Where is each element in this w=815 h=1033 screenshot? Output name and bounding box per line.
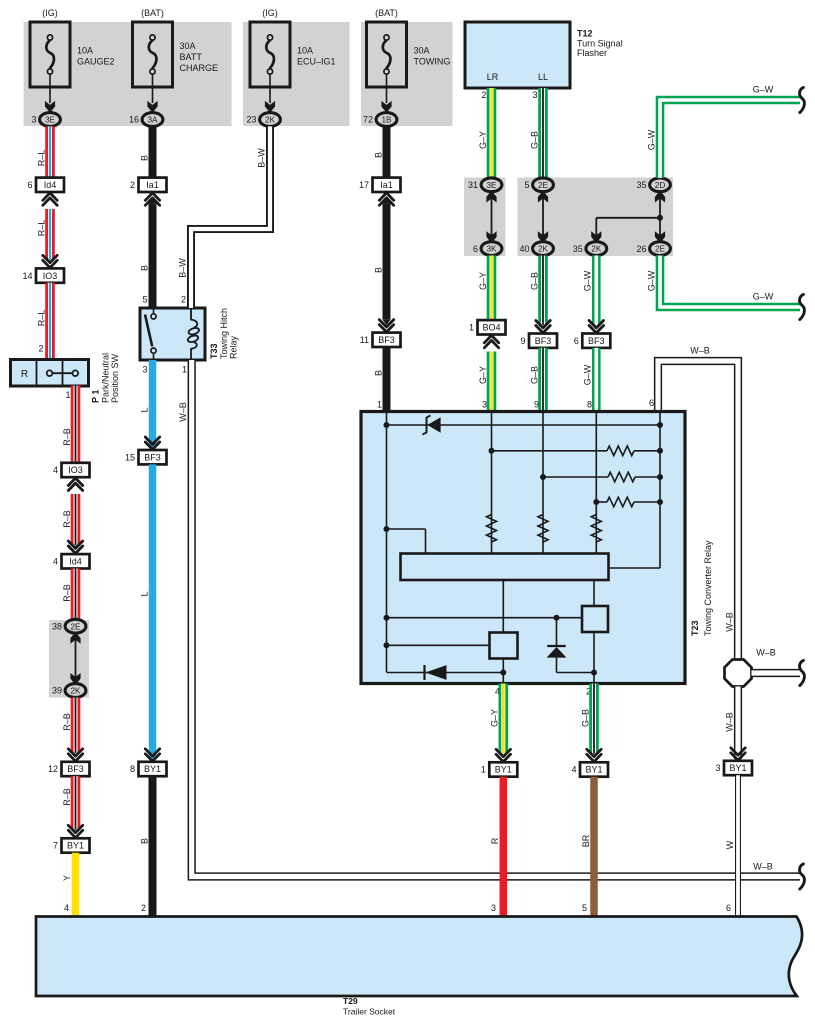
svg-text:15: 15 bbox=[125, 452, 135, 462]
svg-text:72: 72 bbox=[363, 115, 373, 125]
wire R-L 3E to Id4 bbox=[45, 126, 55, 178]
svg-text:R–B: R–B bbox=[62, 510, 72, 528]
towing converter relay T23 bbox=[361, 412, 685, 684]
svg-text:R–L: R–L bbox=[36, 310, 46, 327]
svg-text:IO3: IO3 bbox=[43, 271, 58, 281]
wire Y BY1 to trailer socket pin 4 bbox=[72, 853, 80, 916]
svg-text:Turn Signal: Turn Signal bbox=[577, 39, 623, 49]
connector 4 IO3 bbox=[62, 463, 90, 477]
wire W-B octagon to BY1 bbox=[734, 687, 742, 760]
svg-text:Park/Neutral: Park/Neutral bbox=[101, 353, 111, 403]
wire BR BY1 to trailer socket pin 5 bbox=[590, 777, 598, 916]
arrow link 2D to 2K/2E bbox=[659, 193, 661, 241]
svg-text:3E: 3E bbox=[486, 181, 497, 190]
svg-text:35: 35 bbox=[573, 244, 583, 254]
svg-text:W–B: W–B bbox=[690, 346, 710, 356]
svg-text:BY1: BY1 bbox=[144, 764, 161, 774]
svg-text:1: 1 bbox=[377, 400, 382, 410]
T23 vertical pin8 bbox=[595, 413, 597, 554]
svg-text:Towing Converter Relay: Towing Converter Relay bbox=[703, 540, 713, 636]
svg-text:1: 1 bbox=[481, 765, 486, 775]
svg-text:T33: T33 bbox=[209, 343, 219, 359]
svg-text:30A: 30A bbox=[180, 41, 196, 51]
wire W-B octagon to off-page right bbox=[752, 669, 801, 677]
svg-text:(BAT): (BAT) bbox=[375, 8, 398, 18]
connector 39 2K bbox=[65, 684, 86, 698]
arrows up under Ia1 bbox=[145, 193, 159, 200]
T23 internal rail pin1 bbox=[386, 413, 388, 672]
zener diode bbox=[426, 417, 428, 433]
shade box connectors 3E/3K bbox=[464, 178, 506, 257]
wire B-W 2K to T33 pin 2 bbox=[191, 126, 270, 308]
svg-text:8: 8 bbox=[130, 764, 135, 774]
svg-text:2D: 2D bbox=[655, 181, 666, 190]
svg-text:W–B: W–B bbox=[724, 712, 734, 732]
turn signal flasher T12 bbox=[465, 22, 570, 88]
svg-text:3: 3 bbox=[31, 115, 36, 125]
off-page squiggle W-B right bbox=[800, 660, 805, 685]
svg-text:3A: 3A bbox=[147, 116, 158, 125]
resistor row2 bbox=[543, 476, 608, 478]
svg-text:5: 5 bbox=[524, 180, 529, 190]
svg-text:P 1: P 1 bbox=[91, 390, 101, 403]
arrows down above BY1 bbox=[731, 753, 745, 760]
wire B BF3 to T23 pin 1 bbox=[383, 347, 391, 412]
svg-text:9: 9 bbox=[520, 336, 525, 346]
svg-text:BY1: BY1 bbox=[729, 763, 746, 773]
branch pin1 to control block bbox=[384, 526, 390, 532]
svg-text:2E: 2E bbox=[70, 622, 81, 631]
svg-text:6: 6 bbox=[574, 336, 579, 346]
svg-text:B–W: B–W bbox=[177, 258, 187, 278]
svg-text:B–W: B–W bbox=[256, 148, 266, 168]
svg-text:2K: 2K bbox=[591, 245, 602, 254]
connector 38 2E bbox=[65, 619, 86, 633]
wire R-L Id4 to IO3 bbox=[45, 209, 55, 260]
svg-text:IO3: IO3 bbox=[68, 465, 83, 475]
wire W BY1 to trailer socket pin 6 bbox=[735, 775, 741, 916]
output transistor Q2 bbox=[593, 580, 595, 606]
towing hitch relay T33 bbox=[140, 308, 205, 360]
vertical resistor pin9 bbox=[538, 515, 548, 543]
connector 15 BF3 bbox=[139, 450, 167, 464]
connector 5 2E bbox=[533, 178, 554, 192]
svg-text:3E: 3E bbox=[45, 116, 56, 125]
shade box fuses GAUGE2/BATT bbox=[24, 22, 232, 126]
arrows up under Ia1 bbox=[379, 193, 393, 200]
wire G-Y LR to 3E bbox=[487, 88, 497, 178]
svg-text:30A: 30A bbox=[414, 46, 430, 56]
wire B Ia1 to BF3 bbox=[383, 203, 391, 320]
wire B 1B to Ia1 bbox=[383, 126, 391, 178]
wire W-B T33 pin1 to ground splice run bbox=[192, 360, 800, 877]
connector 1 BY1 bbox=[489, 762, 517, 776]
svg-text:14: 14 bbox=[22, 271, 32, 281]
vertical resistor pin3 bbox=[487, 515, 497, 543]
svg-text:G–Y: G–Y bbox=[478, 272, 488, 290]
svg-text:Y: Y bbox=[62, 875, 72, 881]
svg-text:W–B: W–B bbox=[756, 648, 776, 658]
svg-text:G–W: G–W bbox=[583, 364, 593, 385]
svg-text:2: 2 bbox=[481, 90, 486, 100]
svg-text:G–W: G–W bbox=[753, 292, 774, 302]
svg-text:G–B: G–B bbox=[529, 272, 539, 290]
T23 h-line lower bbox=[387, 644, 490, 646]
connector 16 3A bbox=[142, 113, 163, 127]
svg-text:6: 6 bbox=[726, 903, 731, 913]
svg-text:4: 4 bbox=[53, 557, 58, 567]
svg-text:10A: 10A bbox=[297, 46, 313, 56]
connector 6 3K bbox=[481, 242, 502, 256]
svg-text:(IG): (IG) bbox=[262, 8, 278, 18]
T23 vertical pin6 bbox=[659, 413, 661, 568]
wire B 3A to Ia1 bbox=[149, 126, 157, 178]
fuse 30A TOWING (BAT) bbox=[367, 22, 407, 87]
svg-text:ECU–IG1: ECU–IG1 bbox=[297, 57, 336, 67]
wire L T33 pin3 to BF3 bbox=[149, 360, 157, 446]
svg-text:Id4: Id4 bbox=[44, 180, 57, 190]
svg-text:7: 7 bbox=[53, 841, 58, 851]
connector 12 BF3 bbox=[62, 762, 90, 776]
svg-text:23: 23 bbox=[246, 115, 256, 125]
svg-text:2K: 2K bbox=[538, 245, 549, 254]
T23 vertical pin3 bbox=[491, 413, 493, 554]
svg-text:3: 3 bbox=[532, 90, 537, 100]
svg-text:11: 11 bbox=[360, 335, 369, 345]
svg-text:B: B bbox=[373, 152, 383, 158]
wire R-B IO3 to Id4 bbox=[71, 494, 81, 545]
svg-text:16: 16 bbox=[129, 115, 139, 125]
connector 8 BY1 bbox=[139, 762, 167, 776]
svg-text:10A: 10A bbox=[77, 46, 93, 56]
wire G-B LL to 2E bbox=[538, 88, 548, 178]
connector 6 BF3 bbox=[582, 334, 610, 348]
svg-text:BY1: BY1 bbox=[585, 765, 602, 775]
svg-text:3K: 3K bbox=[486, 245, 497, 254]
svg-text:(BAT): (BAT) bbox=[141, 8, 164, 18]
svg-text:38: 38 bbox=[52, 621, 62, 631]
svg-text:R: R bbox=[21, 369, 28, 380]
park/neutral position switch P1 bbox=[11, 360, 89, 387]
svg-text:B: B bbox=[373, 370, 383, 376]
svg-text:BO4: BO4 bbox=[482, 323, 500, 333]
svg-text:TOWING: TOWING bbox=[414, 57, 451, 67]
svg-text:R: R bbox=[490, 837, 500, 844]
arrows down above BY1 bbox=[68, 830, 82, 837]
shade box connectors 2E/2K left bbox=[49, 620, 89, 698]
shade box connectors 2E/2K/2D bbox=[518, 178, 674, 257]
wire G-B T23 pin2 to BY1 bbox=[589, 684, 599, 754]
svg-text:G–W: G–W bbox=[753, 85, 774, 95]
resistor row1 bbox=[492, 450, 608, 452]
wire G-B 2K to BF3 bbox=[538, 256, 548, 325]
svg-text:2: 2 bbox=[141, 903, 146, 913]
arrow link 2E to 2K bbox=[75, 634, 77, 683]
svg-text:R–L: R–L bbox=[36, 220, 46, 237]
svg-text:12: 12 bbox=[48, 764, 58, 774]
T33 coil bbox=[190, 308, 192, 320]
wire R-L IO3 to P1 bbox=[45, 283, 55, 360]
svg-text:LL: LL bbox=[538, 72, 548, 82]
off-page squiggle G-W top bbox=[800, 87, 805, 112]
fuse 10A ECU-IG1 (IG) bbox=[250, 22, 290, 87]
wire G-W BF3 to T23 pin 8 bbox=[592, 348, 601, 412]
svg-text:4: 4 bbox=[53, 465, 58, 475]
svg-text:G–Y: G–Y bbox=[490, 709, 500, 727]
svg-text:W–B: W–B bbox=[178, 402, 188, 422]
svg-text:2: 2 bbox=[181, 295, 186, 305]
T23 top rail bbox=[387, 424, 661, 426]
arrow link 3E to 3K bbox=[491, 193, 493, 242]
arrows down above Id4 bbox=[68, 546, 82, 553]
svg-text:6: 6 bbox=[649, 398, 654, 408]
svg-text:BF3: BF3 bbox=[378, 335, 395, 345]
svg-text:BF3: BF3 bbox=[144, 452, 161, 462]
connector 40 2K bbox=[533, 242, 554, 256]
arrows down above BY1 bbox=[145, 754, 159, 761]
svg-text:L: L bbox=[139, 591, 149, 596]
svg-text:Ia1: Ia1 bbox=[380, 180, 393, 190]
arrow link 2E to 2K bbox=[542, 193, 544, 242]
svg-text:BY1: BY1 bbox=[495, 765, 512, 775]
arrows up under Id4 bbox=[43, 193, 57, 200]
arrows up under BO4 bbox=[484, 335, 498, 342]
svg-text:T23: T23 bbox=[690, 620, 700, 636]
svg-text:4: 4 bbox=[571, 765, 576, 775]
svg-text:2E: 2E bbox=[538, 181, 549, 190]
svg-text:T12: T12 bbox=[577, 29, 593, 39]
connector 7 BY1 bbox=[62, 838, 90, 852]
output transistor Q1 bbox=[502, 580, 504, 633]
svg-text:GAUGE2: GAUGE2 bbox=[77, 57, 115, 67]
connector 35 2D bbox=[650, 178, 671, 192]
svg-text:3: 3 bbox=[715, 763, 720, 773]
T23 h-line upper bbox=[387, 617, 583, 619]
svg-text:40: 40 bbox=[519, 244, 529, 254]
T23 control block bbox=[401, 554, 609, 581]
svg-text:W: W bbox=[725, 840, 735, 849]
connector 35 2K bbox=[586, 242, 607, 256]
wire G-Y 3K to BO4 bbox=[487, 256, 497, 322]
wire G-W 2D to off-page right top bbox=[660, 100, 800, 178]
off-page squiggle G-W lower bbox=[800, 294, 805, 319]
svg-text:BF3: BF3 bbox=[588, 336, 605, 346]
off-page squiggle W-B bottom bbox=[800, 864, 805, 889]
svg-text:5: 5 bbox=[582, 903, 587, 913]
svg-text:Ia1: Ia1 bbox=[146, 180, 159, 190]
svg-text:39: 39 bbox=[52, 686, 62, 696]
svg-text:B: B bbox=[139, 155, 149, 161]
svg-text:2K: 2K bbox=[70, 687, 81, 696]
connector 3 3E bbox=[40, 113, 61, 127]
connector 9 BF3 bbox=[529, 334, 557, 348]
connector 72 1B bbox=[376, 113, 397, 127]
svg-text:Trailer Socket: Trailer Socket bbox=[343, 1007, 396, 1017]
svg-text:3: 3 bbox=[142, 365, 147, 375]
svg-text:G–B: G–B bbox=[529, 366, 539, 384]
svg-text:R–B: R–B bbox=[62, 428, 72, 446]
arrows down above BY1 bbox=[587, 754, 601, 761]
fuse 30A BATT CHARGE (BAT) bbox=[133, 22, 173, 87]
svg-text:G–Y: G–Y bbox=[478, 131, 488, 149]
arrows down above BF3 bbox=[589, 326, 603, 333]
svg-text:G–W: G–W bbox=[646, 270, 656, 291]
svg-text:6: 6 bbox=[473, 244, 478, 254]
svg-text:Position SW: Position SW bbox=[110, 353, 120, 403]
wire R-B P1 to IO3 bbox=[71, 386, 81, 463]
svg-text:R–B: R–B bbox=[62, 713, 72, 731]
arrows down above BF3 bbox=[145, 442, 159, 449]
connector 3 BY1 bbox=[724, 761, 752, 775]
T33 switch contacts bbox=[153, 308, 155, 314]
svg-text:Id4: Id4 bbox=[69, 557, 82, 567]
svg-text:4: 4 bbox=[64, 903, 69, 913]
svg-text:31: 31 bbox=[468, 180, 478, 190]
svg-text:1: 1 bbox=[182, 365, 187, 375]
svg-text:2K: 2K bbox=[265, 116, 276, 125]
wire G-Y T23 pin4 to BY1 bbox=[498, 684, 508, 754]
svg-text:2: 2 bbox=[130, 180, 135, 190]
svg-text:G–W: G–W bbox=[646, 129, 656, 150]
svg-text:6: 6 bbox=[27, 180, 32, 190]
shade box fuse TOWING bbox=[361, 22, 453, 126]
svg-text:G–W: G–W bbox=[583, 270, 593, 291]
svg-text:1: 1 bbox=[65, 390, 70, 400]
svg-text:BR: BR bbox=[581, 834, 591, 847]
connector 23 2K bbox=[260, 113, 281, 127]
arrows down above BY1 bbox=[496, 754, 510, 761]
svg-text:B: B bbox=[139, 838, 149, 844]
svg-text:R–B: R–B bbox=[62, 788, 72, 806]
svg-text:BY1: BY1 bbox=[67, 841, 84, 851]
wire R-B Id4 to 2E bbox=[71, 569, 81, 620]
svg-text:R–L: R–L bbox=[36, 150, 46, 167]
connector 14 IO3 bbox=[36, 268, 64, 282]
connector 1 BO4 bbox=[478, 320, 506, 334]
arrows down above BF3 bbox=[68, 754, 82, 761]
svg-text:BF3: BF3 bbox=[535, 336, 552, 346]
svg-text:LR: LR bbox=[487, 72, 499, 82]
svg-text:G–B: G–B bbox=[580, 709, 590, 727]
svg-text:G–B: G–B bbox=[529, 131, 539, 149]
wire G-W 2E to off-page right lower bbox=[660, 256, 800, 308]
wire G-Y BO4 to T23 pin 3 bbox=[487, 352, 497, 412]
wire R BY1 to trailer socket pin 3 bbox=[500, 777, 508, 916]
svg-text:W–B: W–B bbox=[724, 612, 734, 632]
shade box fuse ECU-IG1 bbox=[243, 22, 350, 126]
svg-text:W–B: W–B bbox=[753, 862, 773, 872]
svg-text:35: 35 bbox=[636, 180, 646, 190]
wire B Ia1 to T33 pin 5 bbox=[149, 203, 157, 308]
svg-text:1B: 1B bbox=[381, 116, 392, 125]
wire R-B BF3 to BY1 bbox=[71, 776, 81, 830]
svg-text:Relay: Relay bbox=[229, 335, 239, 359]
wire B BY1 to trailer socket pin 2 bbox=[149, 776, 157, 916]
fuse 10A GAUGE2 (IG) bbox=[30, 22, 70, 87]
wire W-B T23 pin6 up over to right rail bbox=[658, 361, 738, 659]
svg-text:BATT: BATT bbox=[180, 52, 203, 62]
svg-text:1: 1 bbox=[469, 323, 474, 333]
connector 31 3E bbox=[481, 178, 502, 192]
resistor row3 bbox=[596, 501, 607, 503]
trailer socket T29 bbox=[36, 917, 802, 997]
arrows down above IO3 bbox=[43, 260, 57, 267]
vertical resistor pin8 bbox=[591, 515, 601, 543]
svg-text:2E: 2E bbox=[655, 245, 666, 254]
diode up bbox=[556, 618, 558, 646]
connector 2 Ia1 bbox=[139, 178, 167, 192]
connector 4 Id4 bbox=[62, 554, 90, 568]
svg-text:(IG): (IG) bbox=[42, 8, 58, 18]
connector 4 BY1 bbox=[580, 762, 608, 776]
svg-text:8: 8 bbox=[587, 400, 592, 410]
svg-text:B: B bbox=[373, 267, 383, 273]
svg-text:5: 5 bbox=[142, 295, 147, 305]
svg-text:T29: T29 bbox=[343, 996, 358, 1006]
svg-text:BF3: BF3 bbox=[67, 764, 84, 774]
svg-text:9: 9 bbox=[534, 400, 539, 410]
svg-text:B: B bbox=[139, 265, 149, 271]
wire G-W 2K to BF3 bbox=[592, 256, 601, 325]
ground splice octagon bbox=[725, 660, 752, 687]
svg-text:R–B: R–B bbox=[62, 584, 72, 602]
diode left on pin4 rail bbox=[387, 672, 504, 674]
arrows up under IO3 bbox=[68, 478, 82, 485]
connector 17 Ia1 bbox=[373, 178, 401, 192]
connector 26 2E bbox=[650, 242, 671, 256]
svg-text:26: 26 bbox=[636, 244, 646, 254]
svg-text:17: 17 bbox=[359, 180, 369, 190]
T23 vertical pin9 bbox=[542, 413, 544, 554]
svg-text:3: 3 bbox=[482, 400, 487, 410]
connector 6 Id4 bbox=[36, 178, 64, 192]
svg-text:CHARGE: CHARGE bbox=[180, 63, 219, 73]
wire R-B 2K to BF3 bbox=[71, 698, 81, 754]
svg-text:2: 2 bbox=[38, 344, 43, 354]
svg-text:Flasher: Flasher bbox=[577, 48, 607, 58]
wire G-B BF3 to T23 pin 9 bbox=[538, 348, 548, 412]
svg-text:Towing Hitch: Towing Hitch bbox=[219, 308, 229, 359]
connector 11 BF3 bbox=[373, 333, 401, 347]
svg-text:3: 3 bbox=[491, 903, 496, 913]
wire L BF3 to BY1 bbox=[149, 464, 157, 757]
arrows down above BF3 bbox=[379, 325, 393, 332]
arrows down above BF3 bbox=[536, 326, 550, 333]
svg-text:L: L bbox=[139, 407, 149, 412]
svg-text:G–Y: G–Y bbox=[478, 366, 488, 384]
